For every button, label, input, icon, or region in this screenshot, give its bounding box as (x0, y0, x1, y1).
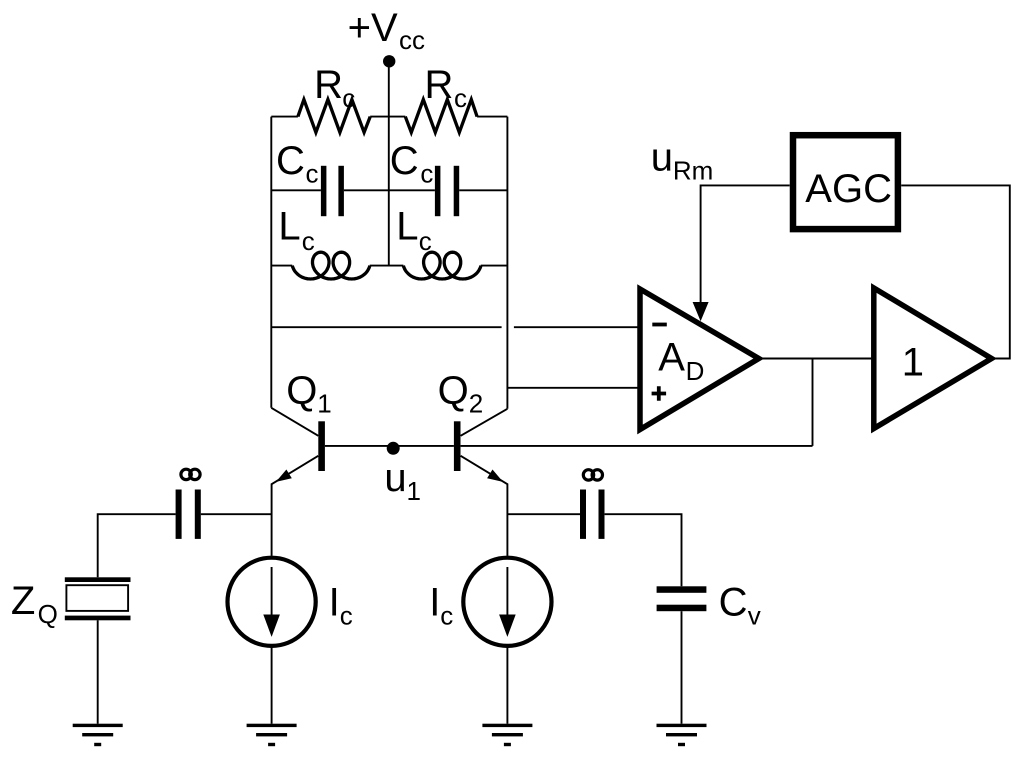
wire left rail (270, 117, 272, 408)
transistor Q1 (318, 421, 325, 471)
svg-text:Z: Z (11, 579, 35, 623)
svg-text:Q: Q (38, 599, 58, 629)
svg-text:c: c (302, 226, 315, 256)
wire crystal to ground (97, 620, 99, 723)
transistor Q1 emitter arrow (276, 470, 292, 482)
svg-text:c: c (306, 158, 319, 188)
wire A_D output (759, 358, 874, 360)
wire I_c1 to ground (271, 646, 273, 724)
resistor R_c right (405, 100, 477, 133)
ground I_c2 (482, 724, 532, 747)
svg-text:Rm: Rm (673, 156, 713, 186)
wire Q1 collector to A_D minus input (271, 326, 640, 328)
node u1 dot (387, 442, 400, 455)
wire Q2 emitter (461, 456, 508, 556)
svg-text:L: L (278, 204, 300, 248)
wire AGC to A_D control (701, 185, 790, 303)
svg-text:1: 1 (317, 389, 331, 419)
inductor L_c right (403, 252, 481, 279)
wire base node u1 (325, 445, 454, 447)
wire Q1 collector diagonal (271, 408, 318, 436)
wire base feedback (461, 359, 813, 446)
transistor Q2 (454, 421, 461, 471)
capacitor C_v (657, 586, 707, 593)
svg-text:A: A (658, 335, 685, 379)
svg-text:v: v (748, 601, 761, 631)
svg-text:c: c (342, 83, 355, 113)
svg-text:Q: Q (438, 369, 469, 413)
svg-text:I: I (429, 581, 440, 625)
wire resistor row (271, 116, 507, 118)
svg-text:C: C (390, 139, 419, 183)
resistor R_c left (298, 100, 370, 133)
wire Vcc center rail (388, 62, 390, 266)
crystal Z_Q (65, 577, 131, 582)
wire I_c2 to ground (506, 646, 508, 724)
infinity symbol left (181, 469, 191, 479)
wire crystal coupling (98, 514, 272, 577)
capacitor C_c left (321, 166, 327, 216)
svg-text:+V: +V (348, 6, 398, 50)
svg-text:c: c (420, 158, 433, 188)
svg-text:D: D (686, 356, 705, 386)
wire Q2 collector to A_D plus input (507, 387, 640, 389)
buffer amp 1 (874, 288, 992, 429)
current source I_c2 arrow (506, 567, 508, 617)
infinity symbol right (583, 470, 593, 480)
ground C_v (657, 724, 707, 747)
op-amp A_D plus sign (652, 386, 667, 400)
svg-text:R: R (314, 63, 343, 107)
wire inductor row (271, 265, 507, 267)
arrowhead AGC control (693, 302, 709, 321)
svg-text:cc: cc (399, 25, 425, 55)
svg-text:c: c (454, 83, 467, 113)
ground I_c1 (247, 724, 297, 747)
AGC box (793, 135, 898, 229)
capacitor C_c right (435, 166, 441, 216)
svg-text:2: 2 (469, 389, 483, 419)
wire right rail (506, 117, 508, 409)
svg-text:C: C (276, 139, 305, 183)
svg-text:u: u (651, 135, 673, 179)
svg-text:u: u (384, 456, 406, 500)
wire buffer output to AGC (901, 185, 1010, 358)
svg-text:I: I (329, 581, 340, 625)
svg-text:c: c (340, 601, 353, 631)
svg-text:AGC: AGC (805, 167, 892, 211)
op-amp A_D (640, 289, 759, 430)
current source I_c1 (228, 558, 316, 646)
svg-text:1: 1 (407, 476, 421, 506)
current source I_c2 (463, 558, 551, 646)
svg-text:L: L (396, 204, 418, 248)
transistor Q2 emitter arrow (487, 470, 503, 482)
wire C_v to ground (681, 611, 683, 724)
svg-text:R: R (425, 63, 454, 107)
svg-text:1: 1 (902, 340, 924, 384)
svg-text:C: C (719, 581, 748, 625)
current source I_c1 arrow (271, 567, 273, 617)
op-amp A_D minus sign (652, 323, 667, 327)
wire capacitor row (271, 189, 507, 191)
wire Q1 emitter (272, 456, 319, 556)
inductor L_c left (292, 252, 370, 279)
capacitor infinity right (580, 490, 586, 539)
capacitor infinity left (176, 490, 182, 539)
svg-text:c: c (440, 601, 453, 631)
ground Z_Q (73, 724, 123, 747)
wire Q2 emitter to C_v (507, 514, 681, 586)
svg-text:c: c (419, 226, 432, 256)
wire Q2 collector diagonal (461, 409, 508, 436)
node +Vcc dot (383, 55, 395, 67)
svg-text:Q: Q (286, 369, 317, 413)
